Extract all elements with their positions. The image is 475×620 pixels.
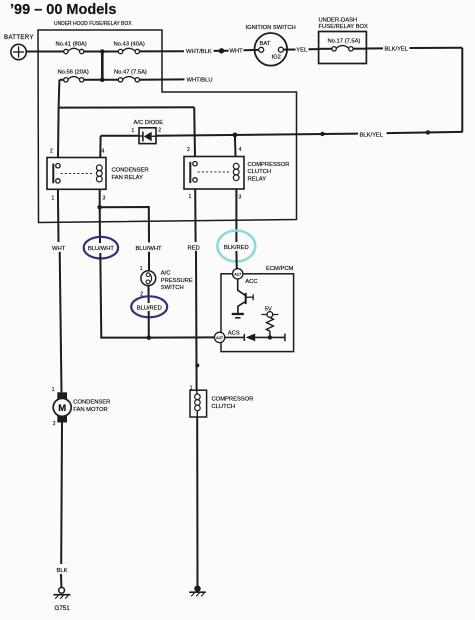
- wire BLK/YEL return upper segment: [387, 132, 463, 133]
- wire fuse No.17 to box edge: [353, 48, 366, 50]
- ignition switch BAT terminal: [259, 47, 264, 52]
- compressor clutch relay: [184, 147, 289, 201]
- junction BLU/WHT branch: [97, 205, 102, 210]
- svg-text:2: 2: [187, 147, 190, 153]
- svg-text:1: 1: [52, 387, 55, 393]
- wire ACS inside ECM: [225, 336, 244, 338]
- wire BLK to ground: [60, 574, 62, 587]
- svg-text:No.43 (40A): No.43 (40A): [114, 42, 145, 48]
- wire right vertical drop: [461, 48, 463, 132]
- wire WHT/BLK to connector: [214, 50, 229, 52]
- svg-text:BAT: BAT: [260, 41, 271, 47]
- wire fan motor to BLK label: [60, 423, 63, 565]
- svg-text:FAN MOTOR: FAN MOTOR: [73, 407, 107, 413]
- svg-text:1: 1: [132, 128, 135, 134]
- svg-text:4: 4: [102, 148, 105, 154]
- svg-text:BLK/YEL: BLK/YEL: [360, 132, 384, 138]
- svg-text:BLU/WHT: BLU/WHT: [136, 246, 163, 252]
- fuse No.47 (7.5A): [114, 70, 147, 82]
- svg-text:IG2: IG2: [272, 55, 281, 61]
- ECM/PCM box: [221, 266, 294, 352]
- ACS line end bar: [284, 334, 286, 342]
- wire relay feed horizontal: [59, 106, 195, 108]
- svg-text:M: M: [58, 403, 66, 414]
- wire YEL to under-dash box: [309, 48, 319, 50]
- A/C diode D1: [132, 120, 164, 143]
- wire condenser fan relay pin 3 down (BLU/WHT): [99, 189, 101, 207]
- svg-text:2: 2: [53, 421, 56, 427]
- svg-text:ACS: ACS: [228, 330, 240, 336]
- wire ACS line to right end: [255, 336, 285, 338]
- svg-text:’99 – 00 Models: ’99 – 00 Models: [10, 2, 116, 18]
- svg-text:FUSE/RELAY BOX: FUSE/RELAY BOX: [319, 24, 369, 30]
- junction resistor to ACS line: [268, 335, 272, 339]
- condenser fan relay coil: [96, 165, 102, 171]
- svg-text:BLK/YEL: BLK/YEL: [385, 47, 409, 53]
- wire compressor clutch relay pin 4 up: [234, 135, 237, 157]
- svg-text:WHT/BLK: WHT/BLK: [186, 49, 212, 55]
- wire WHT to ignition switch BAT: [244, 49, 259, 51]
- inline connector on RED wire: [195, 363, 199, 367]
- wire fuse No.56 to fuse No.47: [84, 79, 118, 81]
- condenser fan relay: [47, 148, 149, 201]
- 5V supply node: [261, 307, 278, 318]
- ECM connector A17 (ACC): [233, 269, 258, 285]
- svg-text:No.17 (7.5A): No.17 (7.5A): [328, 39, 361, 45]
- svg-text:A/C: A/C: [161, 271, 171, 277]
- wire BLK/YEL to right corner: [410, 47, 463, 49]
- svg-text:4: 4: [239, 147, 242, 153]
- svg-text:CLUTCH: CLUTCH: [248, 169, 272, 175]
- A/C pressure switch: [140, 266, 193, 298]
- wire ACC to transistor collector: [238, 279, 246, 296]
- wire feed down to compressor clutch relay pin 2: [193, 107, 196, 156]
- ground G751: [53, 587, 70, 612]
- wire RED to compressor clutch: [195, 251, 198, 390]
- junction bus between fuse rows: [100, 49, 105, 82]
- svg-text:ECM/PCM: ECM/PCM: [266, 266, 294, 272]
- svg-text:BATTERY: BATTERY: [4, 34, 34, 41]
- svg-text:YEL: YEL: [296, 48, 308, 54]
- svg-text:1: 1: [189, 194, 192, 200]
- wire BLU/WHT left leg into ellipse: [99, 207, 101, 243]
- compressor clutch relay contacts: [193, 162, 197, 166]
- fuse No.56 (20A): [58, 70, 89, 82]
- fuse No.43 (40A): [114, 42, 145, 54]
- wire condenser fan relay pin 1 down (WHT): [57, 189, 60, 242]
- wire WHT to fan motor: [60, 252, 62, 392]
- under-hood fuse/relay box: [38, 21, 297, 223]
- svg-text:PRESSURE: PRESSURE: [161, 278, 193, 284]
- compressor clutch relay coil: [233, 163, 239, 169]
- svg-text:No.41 (80A): No.41 (80A): [56, 42, 87, 48]
- transistor Q1 (ECM output driver): [238, 293, 253, 313]
- wire fuse No.41 to fuse No.43: [84, 51, 118, 53]
- highlight ellipse BLU/RED: [131, 296, 167, 317]
- inline connector on BLK/YEL wire left: [320, 132, 324, 136]
- svg-text:BLK/RED: BLK/RED: [224, 245, 249, 251]
- wire compressor clutch relay pin 3 down (BLK/RED): [235, 189, 237, 242]
- wire ACS run to ECM connector A27: [149, 336, 215, 338]
- condenser fan relay dashed link: [61, 172, 93, 174]
- svg-text:1: 1: [140, 266, 143, 272]
- svg-text:A17: A17: [234, 272, 242, 277]
- ignition switch IG2 terminal: [278, 47, 283, 52]
- wire branch to pressure switch: [100, 207, 149, 243]
- ECM connector A27 (ACS): [214, 330, 239, 342]
- junction ACS run: [147, 335, 152, 340]
- fuse No.17 (7.5A): [328, 39, 361, 52]
- svg-text:2: 2: [50, 148, 53, 154]
- svg-text:WHT: WHT: [52, 246, 66, 252]
- wire compressor clutch to ground: [196, 417, 198, 586]
- wire BLK/YEL to A/C diode: [156, 134, 358, 136]
- wire BLK/RED to ECM connector A17: [235, 251, 237, 269]
- svg-text:2: 2: [158, 128, 161, 134]
- svg-text:No.56 (20A): No.56 (20A): [58, 70, 89, 76]
- svg-text:WHT/BLU: WHT/BLU: [187, 77, 213, 83]
- svg-text:UNDER-DASH: UNDER-DASH: [319, 18, 358, 24]
- svg-text:A/C DIODE: A/C DIODE: [134, 120, 164, 126]
- wire to BLK/YEL label: [366, 47, 383, 49]
- fuse No.41 (80A): [56, 42, 87, 54]
- wire BLU/WHT label to pressure switch pin 1: [148, 252, 150, 271]
- wire fuse No.47 to WHT/BLU label: [140, 78, 185, 80]
- svg-text:WHT: WHT: [230, 49, 244, 55]
- svg-text:IGNITION SWITCH: IGNITION SWITCH: [246, 25, 296, 31]
- svg-text:BLK: BLK: [57, 568, 68, 574]
- condenser fan motor: [52, 387, 111, 427]
- junction BLK/YEL to compressor clutch relay coil: [233, 133, 238, 138]
- svg-text:COMPRESSOR: COMPRESSOR: [248, 162, 290, 168]
- wire fuse No.56 left end: [59, 79, 63, 81]
- highlight ellipse BLK/RED: [217, 231, 255, 262]
- resistor R1 (5V pull-up): [266, 317, 273, 337]
- wire IG2 to YEL label: [283, 49, 295, 51]
- wire A/C diode pin 1 to relay coil: [101, 135, 139, 137]
- svg-text:ACC: ACC: [245, 279, 257, 285]
- wire fuse No.43 to WHT/BLK label: [140, 50, 185, 52]
- battery: [4, 34, 34, 60]
- ground (compressor clutch): [189, 585, 206, 596]
- wire BLU/RED down to ACS run: [148, 311, 150, 338]
- wire fuse No.56 down to relay feed node: [58, 80, 61, 108]
- svg-text:FAN RELAY: FAN RELAY: [112, 175, 144, 181]
- svg-text:BLU/WHT: BLU/WHT: [88, 246, 115, 252]
- ground (ECM internal): [232, 314, 244, 318]
- svg-text:3: 3: [103, 195, 106, 201]
- svg-text:SWITCH: SWITCH: [161, 285, 184, 291]
- wire down to condenser fan relay pin 4: [99, 136, 101, 158]
- svg-text:RELAY: RELAY: [248, 176, 267, 182]
- wire into fuse No.17: [319, 48, 332, 50]
- wire pressure switch pin 2 down: [148, 286, 150, 303]
- wire battery to fuse No.41: [26, 51, 63, 53]
- compressor clutch relay dashed link: [198, 171, 230, 173]
- wire compressor clutch relay pin 1 down (RED): [194, 189, 196, 242]
- svg-text:1: 1: [52, 195, 55, 201]
- diode D2 on ACS line: [244, 334, 255, 342]
- svg-text:No.47 (7.5A): No.47 (7.5A): [114, 70, 147, 76]
- svg-text:BLU/RED: BLU/RED: [137, 305, 162, 311]
- compressor clutch: [190, 385, 254, 417]
- wire BLU/WHT down to ACS run: [100, 253, 149, 338]
- svg-text:CLUTCH: CLUTCH: [212, 404, 236, 410]
- wire feed down to condenser fan relay pin 2: [57, 108, 60, 158]
- inline connector on WHT wire: [219, 48, 224, 53]
- under-dash fuse/relay box: [319, 18, 369, 64]
- svg-text:RED: RED: [188, 245, 200, 251]
- inline connector on BLK/YEL wire right: [426, 130, 430, 134]
- svg-text:CONDENSER: CONDENSER: [112, 168, 149, 174]
- svg-text:COMPRESSOR: COMPRESSOR: [212, 396, 254, 402]
- svg-text:G751: G751: [55, 605, 71, 612]
- svg-text:3: 3: [239, 195, 242, 201]
- ignition switch: [246, 25, 296, 66]
- svg-text:CONDENSER: CONDENSER: [73, 399, 110, 405]
- svg-text:A27: A27: [216, 335, 224, 340]
- svg-text:UNDER HOOD FUSE/RELAY BOX: UNDER HOOD FUSE/RELAY BOX: [54, 21, 132, 27]
- highlight ellipse BLU/WHT: [84, 237, 118, 259]
- condenser fan relay contacts: [56, 164, 60, 168]
